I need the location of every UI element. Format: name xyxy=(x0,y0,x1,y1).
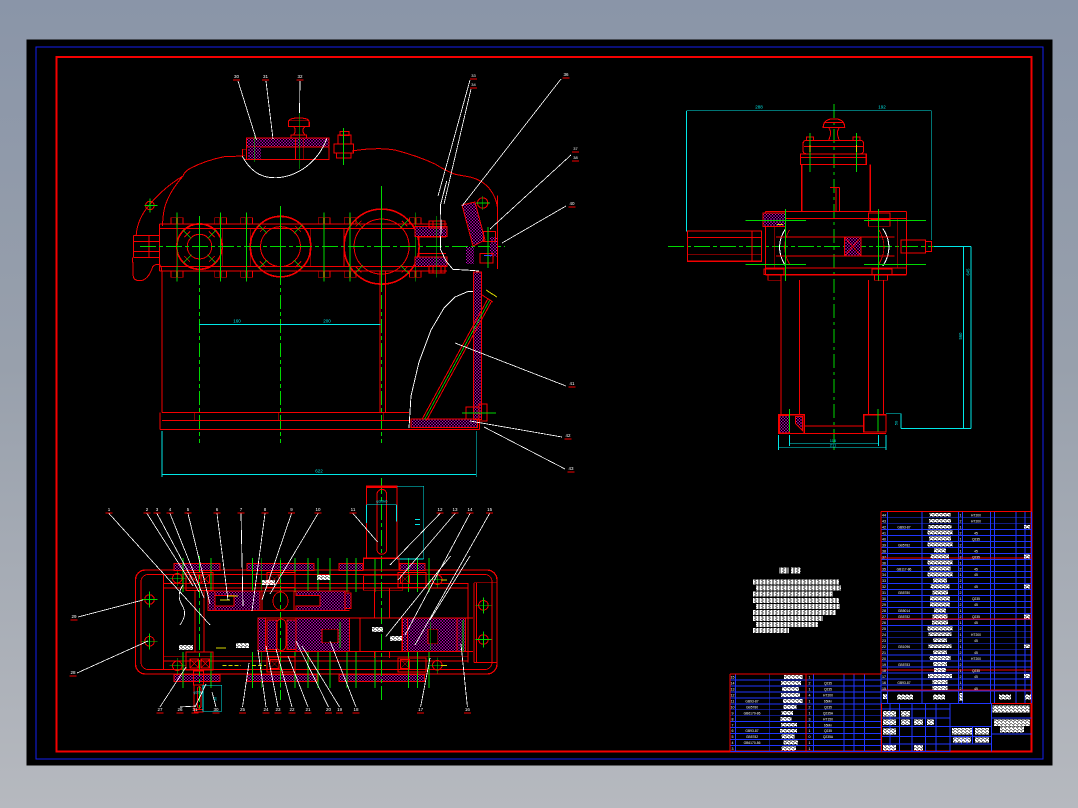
svg-text:622: 622 xyxy=(315,468,323,473)
svg-text:45: 45 xyxy=(974,567,978,571)
svg-text:2: 2 xyxy=(960,663,962,667)
svg-text:1: 1 xyxy=(809,723,811,727)
svg-text:65Mn: 65Mn xyxy=(824,723,832,727)
svg-text:14: 14 xyxy=(731,682,735,686)
svg-text:9: 9 xyxy=(732,711,734,715)
svg-text:31: 31 xyxy=(882,591,886,595)
svg-text:28: 28 xyxy=(70,670,76,675)
svg-text:2: 2 xyxy=(960,687,962,691)
svg-text:28: 28 xyxy=(882,609,886,613)
svg-text:5: 5 xyxy=(732,735,734,739)
svg-text:Q235: Q235 xyxy=(824,729,832,733)
svg-text:160: 160 xyxy=(233,319,241,324)
svg-text:45: 45 xyxy=(974,639,978,643)
svg-text:GB5782: GB5782 xyxy=(746,735,758,739)
svg-text:2: 2 xyxy=(960,591,962,595)
svg-text:15: 15 xyxy=(487,507,493,512)
svg-text:23: 23 xyxy=(275,707,281,712)
svg-text:HT200: HT200 xyxy=(971,657,981,661)
svg-text:17: 17 xyxy=(418,707,424,712)
svg-text:45: 45 xyxy=(974,621,978,625)
svg-text:32: 32 xyxy=(297,74,303,79)
svg-text:22: 22 xyxy=(882,645,886,649)
svg-text:45: 45 xyxy=(974,549,978,553)
svg-text:10: 10 xyxy=(315,507,321,512)
svg-text:34: 34 xyxy=(471,82,476,87)
svg-text:2: 2 xyxy=(960,567,962,571)
svg-text:200: 200 xyxy=(323,319,331,324)
svg-text:2: 2 xyxy=(960,579,962,583)
svg-text:GB6170-86: GB6170-86 xyxy=(744,711,761,715)
svg-text:65Mn: 65Mn xyxy=(824,700,832,704)
svg-text:2: 2 xyxy=(960,639,962,643)
svg-text:2: 2 xyxy=(960,615,962,619)
svg-text:29: 29 xyxy=(71,614,77,619)
svg-text:50: 50 xyxy=(894,420,899,425)
svg-text:2: 2 xyxy=(960,627,962,631)
svg-text:37: 37 xyxy=(573,146,578,151)
svg-text:35: 35 xyxy=(882,567,886,571)
svg-text:1: 1 xyxy=(960,597,962,601)
svg-text:GB5780: GB5780 xyxy=(746,705,758,709)
svg-text:20: 20 xyxy=(882,657,886,661)
svg-text:1: 1 xyxy=(960,657,962,661)
svg-text:GB5782: GB5782 xyxy=(898,543,910,547)
svg-text:3: 3 xyxy=(732,747,734,751)
svg-text:1: 1 xyxy=(960,609,962,613)
svg-text:2: 2 xyxy=(960,675,962,679)
svg-text:23: 23 xyxy=(882,639,886,643)
svg-text:1: 1 xyxy=(960,514,962,518)
svg-text:GB1096: GB1096 xyxy=(898,645,910,649)
svg-text:1: 1 xyxy=(960,669,962,673)
svg-text:HT200: HT200 xyxy=(971,633,981,637)
svg-text:15: 15 xyxy=(731,676,735,680)
svg-text:GB5782: GB5782 xyxy=(898,615,910,619)
svg-text:25: 25 xyxy=(882,627,886,631)
svg-text:19: 19 xyxy=(882,663,886,667)
svg-text:42: 42 xyxy=(565,433,571,438)
svg-text:GB93-87: GB93-87 xyxy=(897,681,910,685)
svg-text:30: 30 xyxy=(213,707,219,712)
svg-text:31: 31 xyxy=(263,74,269,79)
svg-text:2: 2 xyxy=(960,603,962,607)
svg-text:17: 17 xyxy=(882,675,886,679)
svg-text:560: 560 xyxy=(958,332,963,340)
svg-text:27: 27 xyxy=(882,615,886,619)
svg-text:1: 1 xyxy=(960,573,962,577)
svg-text:1: 1 xyxy=(809,711,811,715)
svg-text:41: 41 xyxy=(882,531,886,535)
svg-text:22: 22 xyxy=(289,707,295,712)
svg-text:Q235: Q235 xyxy=(824,688,832,692)
svg-text:1: 1 xyxy=(960,645,962,649)
svg-text:211: 211 xyxy=(830,443,837,448)
svg-text:19: 19 xyxy=(337,707,343,712)
svg-text:34: 34 xyxy=(882,573,886,577)
svg-text:31: 31 xyxy=(192,707,198,712)
svg-text:33: 33 xyxy=(471,73,476,78)
svg-text:45: 45 xyxy=(974,585,978,589)
svg-text:Q235: Q235 xyxy=(972,669,980,673)
svg-text:1: 1 xyxy=(809,700,811,704)
svg-text:13: 13 xyxy=(731,688,735,692)
svg-text:18: 18 xyxy=(882,669,886,673)
svg-text:44: 44 xyxy=(882,514,886,518)
svg-text:45: 45 xyxy=(974,603,978,607)
svg-text:43: 43 xyxy=(882,520,886,524)
svg-text:25: 25 xyxy=(240,707,246,712)
svg-text:24: 24 xyxy=(882,633,886,637)
svg-text:4: 4 xyxy=(809,694,811,698)
svg-text:GB93-87: GB93-87 xyxy=(745,700,758,704)
svg-text:45: 45 xyxy=(974,651,978,655)
svg-text:288: 288 xyxy=(755,105,763,110)
svg-text:Q235: Q235 xyxy=(824,705,832,709)
svg-text:2: 2 xyxy=(960,651,962,655)
svg-text:3: 3 xyxy=(809,717,811,721)
svg-text:11: 11 xyxy=(731,700,735,704)
svg-text:1: 1 xyxy=(960,585,962,589)
svg-text:42: 42 xyxy=(882,525,886,529)
svg-text:10: 10 xyxy=(731,705,735,709)
svg-text:GB5780: GB5780 xyxy=(898,591,910,595)
svg-text:12: 12 xyxy=(731,694,735,698)
svg-text:2: 2 xyxy=(960,520,962,524)
svg-text:38: 38 xyxy=(882,549,886,553)
svg-text:HT150: HT150 xyxy=(823,717,833,721)
svg-text:1: 1 xyxy=(960,681,962,685)
svg-text:1: 1 xyxy=(809,741,811,745)
svg-text:16: 16 xyxy=(882,681,886,685)
svg-text:6: 6 xyxy=(732,729,734,733)
svg-text:24: 24 xyxy=(263,707,269,712)
svg-text:45: 45 xyxy=(974,531,978,535)
svg-text:φ30k6: φ30k6 xyxy=(376,499,388,504)
svg-text:GB117-86: GB117-86 xyxy=(897,567,912,571)
svg-text:30: 30 xyxy=(882,597,886,601)
svg-text:39: 39 xyxy=(882,543,886,547)
svg-text:45: 45 xyxy=(974,675,978,679)
svg-text:21: 21 xyxy=(882,651,886,655)
svg-text:41: 41 xyxy=(569,381,575,386)
svg-text:45: 45 xyxy=(974,573,978,577)
svg-text:7: 7 xyxy=(732,723,734,727)
svg-text:37: 37 xyxy=(882,555,886,559)
svg-text:HT200: HT200 xyxy=(971,520,981,524)
svg-text:GB6170-86: GB6170-86 xyxy=(744,741,761,745)
svg-text:Q235: Q235 xyxy=(972,537,980,541)
svg-text:Q235: Q235 xyxy=(972,555,980,559)
svg-text:8: 8 xyxy=(732,717,734,721)
svg-text:29: 29 xyxy=(882,603,886,607)
svg-text:18: 18 xyxy=(353,707,359,712)
svg-text:36: 36 xyxy=(563,72,569,77)
svg-text:40: 40 xyxy=(569,201,575,206)
svg-text:GB93-87: GB93-87 xyxy=(745,729,758,733)
svg-text:HT200: HT200 xyxy=(823,694,833,698)
svg-text:26: 26 xyxy=(882,621,886,625)
svg-text:1: 1 xyxy=(960,633,962,637)
svg-text:GB5783: GB5783 xyxy=(898,663,910,667)
svg-text:14: 14 xyxy=(467,507,473,512)
svg-text:27: 27 xyxy=(157,707,163,712)
svg-text:30: 30 xyxy=(234,74,240,79)
svg-text:1: 1 xyxy=(809,729,811,733)
svg-text:1: 1 xyxy=(809,676,811,680)
svg-text:21: 21 xyxy=(305,707,311,712)
svg-text:1: 1 xyxy=(960,561,962,565)
svg-text:Q235: Q235 xyxy=(824,682,832,686)
svg-text:20: 20 xyxy=(326,707,332,712)
svg-text:26: 26 xyxy=(177,707,183,712)
svg-text:13: 13 xyxy=(452,507,458,512)
svg-text:Q235: Q235 xyxy=(972,615,980,619)
svg-text:33: 33 xyxy=(882,579,886,583)
svg-text:Q235A: Q235A xyxy=(823,735,834,739)
svg-text:43: 43 xyxy=(568,466,574,471)
svg-text:GB5014: GB5014 xyxy=(898,609,910,613)
svg-text:0: 0 xyxy=(809,735,811,739)
svg-text:1: 1 xyxy=(809,747,811,751)
svg-text:GB93-87: GB93-87 xyxy=(897,525,910,529)
svg-text:1: 1 xyxy=(960,525,962,529)
svg-text:38: 38 xyxy=(573,155,578,160)
svg-text:4: 4 xyxy=(732,741,734,745)
svg-text:Q235A: Q235A xyxy=(823,711,834,715)
svg-text:Q235: Q235 xyxy=(972,597,980,601)
svg-text:1: 1 xyxy=(960,549,962,553)
svg-text:40: 40 xyxy=(882,537,886,541)
svg-text:11: 11 xyxy=(351,507,356,512)
svg-text:645: 645 xyxy=(966,268,971,276)
svg-text:2: 2 xyxy=(960,543,962,547)
svg-text:1: 1 xyxy=(960,537,962,541)
svg-text:1: 1 xyxy=(809,688,811,692)
svg-text:2: 2 xyxy=(960,555,962,559)
svg-text:16: 16 xyxy=(465,707,471,712)
svg-text:12: 12 xyxy=(437,507,443,512)
svg-text:192: 192 xyxy=(878,105,886,110)
svg-text:2: 2 xyxy=(809,705,811,709)
svg-text:15: 15 xyxy=(882,687,886,691)
svg-text:2: 2 xyxy=(960,531,962,535)
svg-text:1: 1 xyxy=(960,621,962,625)
svg-text:HT200: HT200 xyxy=(971,514,981,518)
svg-text:2: 2 xyxy=(809,682,811,686)
svg-text:32: 32 xyxy=(882,585,886,589)
svg-text:45: 45 xyxy=(974,687,978,691)
svg-text:36: 36 xyxy=(882,561,886,565)
